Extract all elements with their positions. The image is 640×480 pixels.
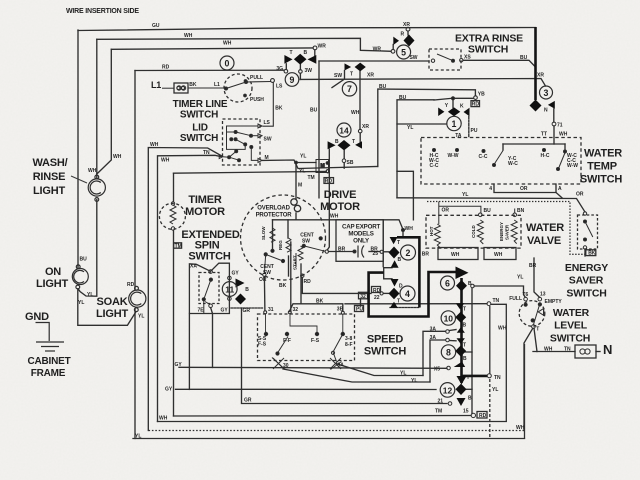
- timer line switch contacts: [162, 79, 274, 127]
- wire XR vertical to 14: [359, 71, 361, 129]
- water valve dashed box: [426, 215, 521, 248]
- wire RD vertical through soak light: [134, 71, 136, 291]
- svg-text:PU: PU: [471, 128, 478, 134]
- wire bottom bus WH: [158, 421, 507, 423]
- PU boxed label: [355, 306, 364, 312]
- wire notch between 2 and 4: [384, 268, 392, 279]
- connector diamond of 12: [456, 384, 467, 395]
- wire stub to cap box corner: [397, 171, 413, 220]
- circle terminal 3: [540, 86, 553, 99]
- svg-text:SW: SW: [264, 137, 272, 143]
- extra rinse switch dashed box: [429, 49, 461, 70]
- ground symbol: [36, 323, 65, 352]
- wire BK 32 to 3B: [289, 304, 343, 312]
- svg-text:C-C: C-C: [430, 163, 439, 169]
- svg-text:TM: TM: [308, 175, 315, 181]
- circle terminal 0: [220, 56, 234, 70]
- svg-text:3A: 3A: [430, 335, 437, 341]
- wire water temp outputs: [494, 184, 556, 193]
- wire N line: [533, 351, 575, 353]
- svg-text:OR: OR: [520, 186, 528, 192]
- svg-text:YL: YL: [135, 434, 141, 440]
- thick conductor group: [369, 27, 536, 383]
- svg-text:21: 21: [437, 399, 443, 405]
- svg-text:LIGHT: LIGHT: [96, 308, 128, 320]
- speed switch dashed box: [258, 314, 355, 361]
- svg-text:SWITCH: SWITCH: [580, 174, 622, 186]
- connector triangle B of 14: [328, 141, 336, 149]
- svg-text:BK: BK: [279, 283, 287, 289]
- svg-text:SLOW: SLOW: [261, 226, 266, 240]
- svg-text:RD: RD: [162, 65, 170, 71]
- svg-text:T: T: [397, 299, 400, 305]
- svg-text:GY: GY: [175, 362, 183, 368]
- wire 32 drop to PU: [360, 299, 362, 306]
- wire wash light to ON light bottom: [78, 200, 97, 297]
- svg-text:XR: XR: [362, 124, 369, 130]
- svg-text:WATER: WATER: [526, 222, 564, 234]
- connector triangle T top of 2: [390, 237, 398, 244]
- svg-text:TEMP: TEMP: [587, 161, 617, 173]
- svg-text:RD: RD: [373, 288, 381, 294]
- terminal circles misc: [295, 27, 492, 417]
- svg-text:B: B: [398, 257, 402, 263]
- svg-text:YL: YL: [87, 292, 93, 298]
- svg-text:BK: BK: [588, 251, 596, 257]
- svg-text:BU: BU: [310, 108, 318, 114]
- svg-text:SWITCH: SWITCH: [364, 346, 406, 358]
- svg-text:SAVER: SAVER: [505, 224, 510, 240]
- connector triangle T of 14: [355, 141, 362, 148]
- noise filter box: [575, 345, 596, 358]
- svg-text:WH: WH: [498, 326, 507, 332]
- WH connector box 1: [438, 248, 478, 260]
- svg-text:14: 14: [339, 125, 349, 135]
- svg-text:H-C: H-C: [541, 153, 550, 159]
- svg-text:RD: RD: [472, 101, 480, 107]
- connector diamond at 368 line: [454, 362, 466, 367]
- svg-text:T: T: [536, 327, 539, 333]
- connector diamond above circle 9: [294, 54, 307, 65]
- water level switch contacts: [524, 297, 544, 328]
- circle terminal 8: [441, 345, 455, 359]
- svg-text:L1: L1: [151, 80, 161, 90]
- svg-text:13: 13: [540, 292, 546, 298]
- svg-text:DRIVE: DRIVE: [324, 189, 357, 201]
- svg-text:PROTECTOR: PROTECTOR: [256, 213, 293, 219]
- svg-text:BK: BK: [189, 82, 197, 88]
- svg-text:YB: YB: [478, 91, 485, 97]
- svg-text:T: T: [463, 307, 466, 313]
- wire BK start winding joins 32-3B link: [300, 264, 302, 304]
- connector triangle bottom of 4: [391, 279, 399, 287]
- svg-text:SPEED: SPEED: [367, 334, 404, 346]
- svg-text:BR: BR: [422, 252, 430, 258]
- M box on motor: [316, 159, 346, 173]
- speed switch contacts: [264, 311, 345, 370]
- wire GY line from spin switch left edge: [188, 314, 190, 390]
- wire cap export box right edge: [382, 220, 384, 267]
- connector diamond of 8: [455, 346, 466, 357]
- svg-text:9: 9: [290, 75, 295, 85]
- wire RD bus top of inner box: [135, 69, 284, 71]
- rotated labels: [261, 222, 510, 270]
- svg-text:LIGHT: LIGHT: [36, 278, 68, 290]
- RD boxed label frame: [324, 178, 334, 184]
- svg-text:LS: LS: [276, 84, 283, 90]
- wire BU nested box A: [378, 89, 476, 167]
- wire GR vertical and bus: [242, 308, 448, 404]
- wire BU box B to junction: [434, 98, 452, 100]
- circle terminal 14: [337, 123, 351, 137]
- svg-text:GY: GY: [232, 271, 240, 277]
- svg-text:1: 1: [452, 119, 457, 129]
- RD boxed label frame 2: [471, 101, 480, 107]
- connector arrow to circle 6: [456, 267, 469, 280]
- wire slow winding drop: [272, 220, 274, 250]
- svg-text:YL: YL: [138, 314, 144, 320]
- svg-text:F-F: F-F: [283, 338, 291, 344]
- terminal TM line: [326, 170, 329, 173]
- wire color labels: [78, 22, 596, 440]
- svg-text:B: B: [468, 396, 472, 402]
- svg-text:TN: TN: [203, 150, 210, 156]
- svg-text:TIMER LINE: TIMER LINE: [173, 99, 228, 110]
- section labels: [25, 8, 622, 379]
- svg-text:CAP EXPORT: CAP EXPORT: [342, 224, 381, 231]
- lid switch contacts: [219, 124, 262, 162]
- junction 30 X crossing: [273, 358, 341, 369]
- svg-text:REG: REG: [278, 240, 283, 250]
- connector diamond of 2: [389, 247, 400, 259]
- energy saver switch dashed box: [578, 215, 598, 249]
- wire YL bottom of inner box: [397, 198, 585, 212]
- lid switch dashed box: [223, 119, 261, 165]
- connector diamond above circle 1: [448, 107, 460, 116]
- wire overload to WH: [295, 213, 297, 220]
- junction 3A X crossing: [330, 358, 341, 369]
- overload protector small circles: [291, 199, 297, 205]
- svg-text:YL: YL: [462, 192, 468, 198]
- svg-text:YL: YL: [517, 275, 523, 281]
- wire bottom bus YL: [133, 438, 525, 440]
- svg-text:YL: YL: [300, 154, 306, 160]
- svg-text:VALVE: VALVE: [527, 235, 561, 247]
- svg-text:BU: BU: [80, 257, 88, 263]
- svg-text:B: B: [468, 281, 472, 287]
- wire third vertical with diagonal to wash light: [97, 49, 112, 174]
- svg-text:3A: 3A: [338, 363, 345, 369]
- svg-text:BR: BR: [529, 263, 537, 269]
- svg-text:YL: YL: [400, 371, 406, 377]
- wire PU dashed stem: [468, 116, 470, 137]
- wire WH motor line: [273, 220, 404, 237]
- energy saver switch contacts: [583, 212, 593, 249]
- wire GY line from spin switch to motor terminals: [211, 308, 213, 368]
- wire ON light lower path: [78, 289, 136, 326]
- extra rinse switch contacts: [431, 54, 463, 62]
- svg-text:MODELS: MODELS: [348, 231, 373, 238]
- svg-text:MOTOR: MOTOR: [185, 206, 225, 218]
- wire B diamond of 6 to water level: [474, 286, 525, 297]
- svg-text:GU: GU: [152, 23, 160, 29]
- connector triangle T above 10: [456, 303, 464, 309]
- svg-text:B: B: [245, 287, 249, 293]
- connector triangle T above 8: [457, 327, 465, 333]
- wire dotted bus WH bottom: [149, 430, 526, 432]
- connector triangle left of diamond 7: [345, 63, 352, 70]
- svg-text:BN: BN: [517, 208, 525, 214]
- svg-text:T: T: [290, 50, 293, 56]
- extended spin switch outer box: [189, 263, 229, 313]
- svg-text:5: 5: [401, 47, 406, 57]
- svg-text:PUSH: PUSH: [250, 97, 264, 103]
- svg-text:15: 15: [463, 409, 469, 415]
- wire 22 RD to diamond 4: [383, 292, 388, 294]
- svg-text:HOT: HOT: [429, 226, 434, 236]
- svg-text:SW: SW: [409, 55, 417, 61]
- svg-text:SWITCH: SWITCH: [566, 288, 606, 300]
- wire YL to circle 1: [397, 123, 447, 125]
- wire 3W stem: [299, 65, 301, 70]
- svg-text:B: B: [335, 139, 339, 145]
- wire junction stem to diamond 1: [452, 100, 454, 108]
- cap export models box: [336, 220, 383, 261]
- connector diamond of 10: [455, 312, 466, 323]
- svg-text:TM: TM: [175, 243, 182, 249]
- water valve coils: [434, 202, 517, 248]
- wire energy saver bottom stub: [584, 249, 586, 256]
- circle terminal 6: [441, 276, 455, 290]
- svg-text:LIGHT: LIGHT: [33, 185, 65, 197]
- svg-text:YL: YL: [299, 169, 305, 175]
- svg-text:WH: WH: [544, 347, 553, 353]
- svg-text:TN: TN: [494, 375, 501, 381]
- svg-text:11: 11: [225, 284, 234, 294]
- wire 3A lower: [430, 340, 446, 382]
- water temp switch dashed box: [421, 138, 581, 185]
- RD boxed label near 22: [372, 287, 381, 293]
- svg-text:WH: WH: [330, 214, 339, 220]
- wire dotted GR spin to 31: [231, 307, 264, 309]
- wire WH nested bus 4: [148, 148, 222, 431]
- svg-text:SWITCH: SWITCH: [188, 251, 230, 263]
- RD boxed end of TM line: [477, 412, 487, 419]
- svg-text:WH: WH: [113, 154, 122, 160]
- wire M to YL run: [263, 160, 378, 169]
- svg-text:WH: WH: [351, 110, 360, 116]
- extended spin switch contacts: [202, 270, 231, 313]
- svg-text:FRAME: FRAME: [31, 368, 66, 379]
- wire WH nested bus 5: [158, 155, 222, 421]
- connector triangle above circle 1: [438, 108, 444, 117]
- svg-text:WASH/: WASH/: [32, 157, 67, 169]
- svg-text:CABINET: CABINET: [27, 356, 70, 367]
- wire WH bus 2: [97, 38, 391, 51]
- circle terminal 1: [447, 116, 461, 130]
- svg-text:XR: XR: [537, 73, 544, 79]
- svg-text:M: M: [298, 183, 302, 189]
- svg-text:MOTOR: MOTOR: [320, 201, 360, 213]
- drive motor internal contacts: [263, 228, 329, 277]
- svg-text:3W: 3W: [305, 68, 313, 74]
- wire thick feed to 6 arrow: [369, 272, 456, 317]
- svg-text:M: M: [321, 164, 325, 170]
- wire XR SW line: [300, 79, 545, 87]
- circle terminal 7: [342, 82, 356, 96]
- svg-text:SWITCH: SWITCH: [468, 44, 508, 56]
- connector triangle near circle 3: [548, 101, 555, 109]
- svg-text:SW: SW: [263, 270, 271, 276]
- svg-text:4: 4: [489, 186, 492, 192]
- svg-text:WH: WH: [150, 142, 159, 148]
- svg-text:WR: WR: [373, 46, 382, 52]
- svg-text:B: B: [304, 50, 308, 56]
- svg-text:XR: XR: [403, 22, 410, 28]
- wire BU extra rinse feed: [319, 60, 429, 62]
- wire 3A upper: [423, 331, 446, 375]
- svg-text:YL: YL: [407, 125, 413, 131]
- circle terminal 11: [222, 282, 237, 297]
- wire SB stem: [343, 150, 345, 158]
- svg-text:8-F: 8-F: [345, 342, 353, 348]
- connector diamond below 2: [391, 260, 399, 268]
- connector triangle B above circle 9: [308, 55, 317, 64]
- svg-text:WH: WH: [159, 416, 168, 422]
- water temp switch contacts: [433, 122, 567, 170]
- wire connector B to motor: [327, 149, 329, 250]
- svg-text:F-S: F-S: [311, 338, 320, 344]
- timer line switch dashed circle: [224, 74, 252, 102]
- svg-text:SW: SW: [302, 239, 310, 245]
- connector diamond of 14: [338, 140, 351, 150]
- svg-text:0: 0: [225, 58, 230, 68]
- svg-text:PULL: PULL: [250, 75, 263, 81]
- svg-text:GY: GY: [165, 386, 173, 392]
- WH connector box 2: [484, 248, 516, 260]
- svg-text:BU: BU: [379, 84, 387, 90]
- svg-text:RD: RD: [479, 413, 487, 419]
- svg-text:SB: SB: [347, 160, 354, 166]
- svg-text:EMPTY: EMPTY: [545, 299, 563, 305]
- wire water level vertical: [524, 344, 526, 439]
- wire BU nested box B: [397, 100, 434, 198]
- svg-text:71: 71: [557, 123, 563, 129]
- connector diamond of 4: [389, 288, 400, 300]
- wire bottom bus TM: [174, 415, 472, 418]
- svg-text:BR: BR: [338, 247, 346, 253]
- svg-text:OR: OR: [442, 208, 450, 214]
- svg-text:WH: WH: [405, 226, 414, 232]
- capacitor symbol: [353, 246, 364, 258]
- svg-text:TM: TM: [435, 409, 442, 415]
- svg-text:LS: LS: [264, 120, 271, 126]
- circle terminal 2: [401, 245, 416, 260]
- svg-text:R: R: [401, 32, 405, 38]
- svg-text:F-S: F-S: [258, 342, 267, 348]
- svg-text:SWITCH: SWITCH: [180, 133, 218, 144]
- connector triangle down above 12: [457, 376, 467, 385]
- connector triangle below 12: [457, 398, 466, 406]
- svg-text:LID: LID: [192, 123, 208, 134]
- connector diamond above circle 7: [355, 63, 366, 72]
- svg-text:RD: RD: [304, 279, 312, 285]
- svg-text:ON: ON: [45, 266, 61, 278]
- svg-text:TT: TT: [541, 132, 547, 138]
- svg-text:TIMER: TIMER: [188, 194, 221, 206]
- wire water level bottom: [524, 328, 533, 430]
- svg-text:BU: BU: [520, 55, 528, 61]
- svg-text:3B: 3B: [337, 307, 344, 313]
- svg-text:BU: BU: [399, 95, 407, 101]
- svg-text:GR: GR: [244, 398, 252, 404]
- wire TM RD line: [174, 171, 327, 173]
- svg-text:WH: WH: [516, 425, 525, 431]
- wire timer motor feed: [173, 173, 175, 201]
- boxed 32 label: [359, 292, 368, 299]
- svg-text:4: 4: [405, 289, 410, 299]
- leader line wash light: [71, 176, 87, 183]
- wire WR stem: [314, 50, 316, 56]
- svg-text:SAVER: SAVER: [569, 275, 604, 287]
- wire circle3 drop to water temp: [553, 109, 555, 122]
- svg-text:WATER: WATER: [553, 307, 590, 319]
- wire RD drop to 22: [302, 278, 371, 294]
- lamp soak light: [129, 290, 146, 307]
- svg-text:WH: WH: [88, 168, 97, 174]
- svg-text:TN: TN: [564, 347, 571, 353]
- svg-text:BK: BK: [316, 299, 324, 305]
- svg-text:GR: GR: [243, 308, 251, 314]
- timer motor dashed circle: [159, 203, 185, 229]
- connector triangle near circle 5: [393, 37, 399, 45]
- circle terminal 5: [397, 45, 411, 59]
- svg-text:WH: WH: [451, 252, 460, 258]
- svg-text:BU: BU: [484, 208, 492, 214]
- svg-text:8: 8: [446, 347, 451, 357]
- svg-text:K: K: [460, 103, 464, 109]
- svg-text:WH: WH: [494, 252, 503, 258]
- svg-text:WR: WR: [318, 43, 327, 49]
- svg-text:22: 22: [374, 295, 380, 301]
- connector triangle up below 4: [390, 302, 398, 308]
- connector diamond near circle 3: [530, 100, 542, 112]
- wire wash light vertical: [96, 39, 98, 178]
- wire M box link: [298, 162, 316, 164]
- svg-text:SOAK: SOAK: [97, 296, 128, 308]
- wire water level to N line: [534, 328, 537, 351]
- lamp ON light: [72, 269, 88, 285]
- svg-text:N: N: [603, 342, 612, 357]
- svg-text:WH: WH: [559, 132, 568, 138]
- wire water temp inner link: [503, 143, 565, 145]
- svg-text:N: N: [544, 108, 548, 114]
- svg-text:T: T: [467, 375, 470, 381]
- svg-text:TN: TN: [493, 298, 500, 304]
- connector triangle down above 8: [457, 338, 465, 344]
- WH harness wires: [491, 304, 507, 421]
- svg-text:31: 31: [268, 307, 274, 313]
- svg-text:YL: YL: [78, 300, 84, 306]
- timer motor coil: [170, 202, 176, 230]
- svg-text:X5: X5: [434, 367, 440, 373]
- svg-text:3G: 3G: [276, 66, 283, 72]
- svg-text:T6: T6: [523, 292, 529, 298]
- wire OR drop: [263, 277, 266, 311]
- svg-text:7: 7: [347, 84, 352, 94]
- wire motor center drops: [287, 220, 289, 238]
- wire YL speed out upper: [336, 364, 423, 376]
